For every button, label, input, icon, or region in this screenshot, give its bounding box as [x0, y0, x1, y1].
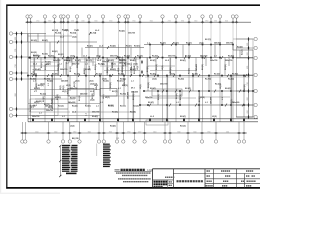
svg-text:KL7(3): KL7(3): [42, 54, 48, 56]
wall step vertical x233: [232, 45, 234, 51]
svg-text:KL2(2): KL2(2): [202, 64, 204, 70]
title block divider x213.5: [213, 169, 215, 188]
svg-text:300x700: 300x700: [160, 83, 167, 85]
svg-text:KL2(2): KL2(2): [178, 79, 184, 81]
svg-text:KL3(1): KL3(1): [117, 81, 123, 83]
svg-text:3600: 3600: [88, 131, 91, 133]
svg-text:3300: 3300: [226, 131, 229, 133]
inter-stack stub: [96, 144, 98, 157]
svg-text:3600: 3600: [194, 21, 197, 23]
svg-text:L5(1): L5(1): [89, 81, 94, 83]
svg-text:KL4(2): KL4(2): [110, 45, 116, 48]
bottom dimension arrows: [20, 132, 246, 134]
svg-text:LL-2: LL-2: [83, 56, 87, 58]
title block row y173.5: [173, 173, 260, 175]
wing roof line y39: [233, 38, 253, 40]
title block row y178.8: [205, 178, 260, 180]
top dimension arrows: [25, 21, 238, 23]
beam segment top-left y36: [28, 35, 72, 37]
svg-text:L-1: L-1: [48, 83, 50, 86]
svg-text:L-1: L-1: [33, 81, 36, 83]
svg-text:KL9(1): KL9(1): [134, 46, 140, 48]
svg-text:AL1(1): AL1(1): [241, 49, 244, 55]
svg-text:KL9(1): KL9(1): [84, 68, 86, 74]
svg-text:KL1(2): KL1(2): [95, 64, 97, 70]
right grid bubbles column: [254, 37, 257, 118]
svg-text:L5(1): L5(1): [140, 84, 142, 89]
svg-text:DT-1: DT-1: [131, 88, 135, 90]
top grid bubble stems: [28, 18, 237, 23]
svg-text:KL9(1): KL9(1): [112, 112, 118, 114]
wall double lines: [35, 58, 232, 122]
svg-text:KL7(3): KL7(3): [90, 33, 97, 35]
svg-text:TL-1 240: TL-1 240: [29, 105, 32, 112]
svg-text:L5(1): L5(1): [103, 94, 105, 99]
left vertical dimension line: [16, 34, 18, 116]
svg-text:3600: 3600: [153, 131, 156, 133]
column grid vertical lines: [28, 22, 237, 122]
svg-text:KL4(2): KL4(2): [110, 124, 116, 127]
svg-text:KL2(2): KL2(2): [148, 82, 150, 88]
svg-text:L-1: L-1: [147, 42, 150, 44]
svg-text:KL2(2): KL2(2): [118, 74, 124, 76]
svg-text:240x600: 240x600: [61, 80, 68, 83]
notes line 3: [118, 178, 120, 179]
svg-text:300x700: 300x700: [210, 60, 217, 62]
svg-text:KL2(2)240: KL2(2)240: [133, 65, 136, 74]
svg-text:240x600: 240x600: [200, 55, 207, 58]
svg-text:KL3(1): KL3(1): [108, 105, 114, 107]
svg-text:2700: 2700: [168, 21, 171, 23]
svg-text:KL2(2): KL2(2): [72, 106, 78, 108]
beam line mid-top y47.5: [85, 47, 144, 49]
svg-text:L3(2): L3(2): [60, 85, 62, 90]
drawing frame left border: [6, 5, 8, 189]
svg-text:240x600: 240x600: [195, 64, 198, 71]
title block row y183.7: [205, 183, 260, 185]
svg-text:KL4(2): KL4(2): [232, 73, 238, 76]
svg-text:LL-2: LL-2: [72, 112, 76, 114]
svg-text:KL2(2): KL2(2): [31, 52, 37, 54]
svg-text:300x700: 300x700: [96, 83, 98, 90]
svg-text:KL7(3): KL7(3): [96, 74, 102, 76]
svg-text:KL7(3): KL7(3): [44, 104, 50, 106]
svg-text:240x600: 240x600: [214, 41, 221, 44]
svg-text:3300: 3300: [247, 43, 249, 46]
title block outline top: [153, 168, 261, 170]
svg-text:KL9(1): KL9(1): [85, 106, 91, 108]
svg-text:KL9(1): KL9(1): [186, 42, 192, 44]
svg-text:3600: 3600: [94, 21, 97, 23]
svg-text:300x700: 300x700: [92, 112, 99, 114]
bottom exterior beam line 1: [28, 118, 258, 120]
svg-text:LL-2: LL-2: [45, 64, 49, 66]
svg-text:KL7(3): KL7(3): [74, 81, 76, 87]
svg-text:KL7(3): KL7(3): [205, 79, 211, 81]
interior beam horizontals: [30, 66, 230, 112]
title block divider x244.4: [243, 174, 245, 188]
svg-text:240x600: 240x600: [68, 101, 75, 104]
svg-text:2700: 2700: [36, 21, 39, 23]
title block row left y183: [168, 182, 174, 184]
svg-text:300x700: 300x700: [145, 97, 152, 99]
bottom dimension line: [22, 132, 247, 134]
svg-text:KL3(1): KL3(1): [41, 62, 43, 68]
svg-text:KL2(2): KL2(2): [124, 56, 130, 58]
svg-text:L-1: L-1: [100, 102, 103, 104]
svg-text:LL-2: LL-2: [33, 105, 37, 107]
main beam line y57.5: [28, 57, 253, 59]
svg-text:3300: 3300: [54, 131, 57, 133]
beam line left y79: [28, 78, 62, 80]
svg-text:LL-2: LL-2: [122, 65, 126, 67]
svg-text:L3(2): L3(2): [152, 79, 157, 81]
svg-text:KL2(2): KL2(2): [48, 56, 54, 58]
svg-text:KL2(2): KL2(2): [152, 56, 158, 58]
beam labels: [30, 30, 239, 128]
svg-text:KL4(2): KL4(2): [237, 46, 243, 49]
svg-text:KL2(2): KL2(2): [103, 81, 109, 83]
notes line 4: [123, 181, 125, 182]
svg-text:KL3(1): KL3(1): [107, 67, 109, 73]
svg-text:L5(1): L5(1): [66, 85, 71, 87]
bottom exterior beam line 2: [28, 121, 258, 123]
svg-text:300x700: 300x700: [60, 69, 67, 71]
top grid bubbles row: [26, 15, 238, 18]
svg-text:3900: 3900: [181, 21, 184, 23]
bottom grid stubs: [22, 122, 244, 140]
svg-text:L-1: L-1: [214, 56, 217, 58]
svg-text:KL1(2): KL1(2): [62, 30, 68, 32]
svg-text:3600: 3600: [109, 21, 112, 23]
svg-text:KL3(1): KL3(1): [70, 66, 72, 72]
corner column: [29, 57, 31, 59]
drawing frame top border: [6, 4, 260, 6]
building left edge x28: [27, 34, 29, 122]
svg-text:KL4(2): KL4(2): [36, 100, 42, 103]
right dimension text: [247, 43, 249, 114]
svg-text:KL2(2): KL2(2): [38, 85, 44, 87]
beam segment y62 c: [102, 61, 128, 63]
page left edge shade: [0, 0, 1, 194]
svg-text:2700: 2700: [15, 64, 17, 67]
svg-text:KL9(1): KL9(1): [130, 112, 136, 114]
svg-text:KL3(1): KL3(1): [148, 102, 154, 104]
svg-text:L-1: L-1: [222, 97, 224, 100]
svg-text:KL4(2): KL4(2): [47, 80, 53, 83]
svg-text:LL-2: LL-2: [165, 60, 169, 62]
title block divider x205: [204, 169, 206, 188]
svg-text:3300: 3300: [247, 97, 249, 100]
svg-text:3600: 3600: [193, 131, 196, 133]
svg-text:3300: 3300: [214, 21, 217, 23]
svg-text:KL7(3): KL7(3): [180, 94, 182, 100]
svg-text:300x700: 300x700: [225, 60, 232, 62]
page bottom edge shade: [0, 193, 60, 194]
svg-text:L3(2): L3(2): [220, 84, 222, 89]
schedule stack A: [62, 145, 78, 172]
svg-text:300x700: 300x700: [128, 33, 135, 35]
svg-text:KL4(2): KL4(2): [228, 78, 234, 81]
svg-text:KL9(1): KL9(1): [180, 60, 186, 62]
svg-text:L5(1): L5(1): [118, 67, 120, 72]
svg-text:KL4(2): KL4(2): [228, 55, 234, 58]
title block cell texts: [206, 170, 256, 186]
right grid bubble leaders: [236, 39, 254, 117]
svg-text:L3(2): L3(2): [90, 99, 95, 101]
svg-text:KL7(3): KL7(3): [120, 94, 126, 96]
svg-text:KL3(1): KL3(1): [52, 74, 58, 76]
svg-text:KL9(1): KL9(1): [42, 40, 48, 42]
bottom dimension text: [35, 131, 229, 133]
stair room box: [30, 99, 58, 116]
design institute name block: [154, 181, 156, 183]
svg-text:LL-2: LL-2: [89, 66, 91, 70]
svg-text:2700: 2700: [247, 82, 249, 85]
top dimension text: [36, 21, 228, 23]
svg-text:LL-2: LL-2: [60, 37, 64, 39]
svg-text:KL4(2): KL4(2): [66, 59, 72, 62]
beam segment left y103.5: [28, 103, 100, 105]
svg-text:3300: 3300: [15, 93, 17, 96]
svg-text:LL-2: LL-2: [97, 60, 101, 62]
plan title text: [121, 169, 123, 171]
beam line right y105: [140, 104, 253, 106]
wall echo line y59: [30, 58, 140, 60]
svg-text:300x700: 300x700: [32, 116, 39, 118]
svg-text:KL3(1): KL3(1): [185, 88, 191, 90]
svg-text:L-1: L-1: [205, 102, 208, 104]
svg-text:KL1(2): KL1(2): [214, 74, 220, 76]
svg-text:240x600: 240x600: [53, 59, 60, 62]
beam segment y115.5: [28, 115, 100, 117]
svg-text:3900: 3900: [205, 21, 208, 23]
notes line 2: [122, 175, 124, 176]
room box 2: [100, 89, 117, 97]
title block divider x236.7: [236, 169, 238, 188]
svg-text:L-1: L-1: [102, 64, 105, 66]
svg-text:3300: 3300: [247, 52, 249, 55]
svg-text:LL-2: LL-2: [99, 46, 103, 48]
svg-text:KL7(3)300x700: KL7(3)300x700: [131, 63, 133, 76]
svg-text:L3(2): L3(2): [63, 85, 65, 90]
left grid bubble leaders: [13, 34, 28, 116]
concrete columns: [27, 44, 254, 121]
plan title leader dash: [115, 169, 120, 171]
drawing frame bottom border: [6, 187, 260, 189]
svg-text:KL9(1): KL9(1): [52, 51, 58, 53]
svg-text:KL1(2): KL1(2): [58, 106, 64, 108]
svg-text:LL-2: LL-2: [33, 69, 35, 73]
svg-text:KL9(1): KL9(1): [180, 116, 186, 118]
svg-text:240x600: 240x600: [127, 92, 130, 99]
interior beam verticals lower: [36, 76, 244, 122]
left vertical dimension line 2: [21, 34, 23, 80]
svg-text:KL1(2): KL1(2): [119, 60, 125, 62]
beam line left y109: [28, 108, 68, 110]
svg-text:L-1: L-1: [39, 113, 42, 115]
svg-text:3300: 3300: [48, 21, 51, 23]
unit boundary dim arrows: [141, 60, 143, 64]
schedule stack A caption: [66, 173, 77, 175]
svg-text:3900: 3900: [109, 131, 112, 133]
svg-text:L5(1): L5(1): [105, 97, 110, 99]
svg-text:3600: 3600: [225, 21, 228, 23]
right dimension arrows: [248, 37, 250, 119]
svg-text:240x600: 240x600: [80, 93, 87, 96]
beam line right step y50: [233, 49, 253, 51]
svg-text:300x700: 300x700: [124, 79, 126, 86]
svg-text:KL9(1): KL9(1): [225, 64, 227, 70]
svg-text:KL3(1): KL3(1): [150, 60, 156, 62]
svg-text:KL9(1): KL9(1): [70, 33, 77, 35]
svg-text:KL9(1): KL9(1): [110, 82, 112, 88]
svg-text:KL3(1): KL3(1): [188, 68, 190, 74]
svg-text:L3(2): L3(2): [212, 116, 217, 118]
wall echo line y77: [145, 76, 250, 78]
svg-text:3600: 3600: [35, 131, 38, 133]
svg-text:L5(1): L5(1): [62, 91, 67, 93]
main beam line y75.5: [28, 75, 253, 77]
svg-text:KL4(2): KL4(2): [150, 73, 156, 76]
svg-text:KL2(2): KL2(2): [158, 94, 160, 100]
room box mid: [152, 89, 182, 96]
building right edge x253: [252, 50, 254, 117]
svg-text:KL2(2): KL2(2): [110, 69, 116, 71]
left grid bubbles column: [9, 32, 12, 117]
svg-text:4200: 4200: [247, 110, 249, 113]
svg-text:KL3(1): KL3(1): [58, 54, 64, 56]
svg-text:KL9(1): KL9(1): [137, 56, 143, 58]
right wing bottom y117: [236, 116, 253, 118]
svg-text:3900: 3900: [73, 131, 76, 133]
svg-text:KL3(1): KL3(1): [55, 33, 62, 35]
svg-text:KL7(3): KL7(3): [70, 98, 76, 100]
svg-text:L-1: L-1: [62, 116, 65, 118]
svg-text:LL-2: LL-2: [74, 30, 78, 32]
svg-text:4200: 4200: [71, 21, 74, 23]
institute sub cell text: [169, 181, 170, 182]
svg-text:L-1: L-1: [131, 81, 134, 83]
beam segment top-left y33.5: [28, 33, 46, 35]
svg-text:3600: 3600: [150, 21, 153, 23]
svg-text:B8@150: B8@150: [72, 138, 79, 140]
title block divider x167.5: [167, 180, 169, 188]
svg-text:L5(1): L5(1): [96, 56, 101, 58]
svg-text:L5(1): L5(1): [162, 65, 164, 70]
svg-text:L-1: L-1: [118, 88, 121, 90]
right vertical dimension line: [248, 39, 250, 117]
svg-text:4200: 4200: [247, 66, 249, 69]
room box 1: [68, 89, 94, 97]
title block row left y179.9: [153, 179, 174, 181]
svg-text:2400: 2400: [81, 21, 84, 23]
svg-text:KL2(2): KL2(2): [225, 88, 231, 90]
svg-text:KL3(1): KL3(1): [160, 42, 166, 44]
svg-text:3900: 3900: [127, 131, 130, 133]
svg-text:KL7(3): KL7(3): [185, 56, 191, 58]
wing edge upper x253: [252, 39, 254, 50]
svg-text:1:25: 1:25: [116, 138, 119, 140]
svg-text:KL1(2): KL1(2): [112, 62, 114, 68]
svg-text:KL3(1): KL3(1): [33, 55, 39, 57]
svg-text:KL7(3): KL7(3): [52, 30, 59, 32]
svg-text:KL4(2): KL4(2): [92, 115, 98, 118]
svg-text:KL7(3): KL7(3): [120, 106, 126, 108]
bottom grid bubbles row: [21, 140, 246, 143]
vertical beam labels: [33, 61, 246, 116]
top dimension line: [26, 21, 252, 23]
room box 3: [146, 120, 168, 125]
svg-text:KL1(2): KL1(2): [40, 94, 46, 96]
svg-text:3300: 3300: [177, 131, 180, 133]
svg-text:2700: 2700: [15, 49, 17, 52]
beam segment y62 a: [30, 61, 60, 63]
svg-text:3900: 3900: [207, 131, 210, 133]
schedule stack A dimension: [59, 146, 61, 176]
svg-text:L-1: L-1: [96, 106, 99, 108]
svg-text:LL-2: LL-2: [90, 91, 94, 93]
schedule stack B: [103, 144, 111, 168]
beam segment y62 b: [68, 61, 95, 63]
notes line 1: [116, 172, 118, 173]
svg-text:KL4(2): KL4(2): [119, 30, 125, 33]
svg-text:240x600: 240x600: [232, 101, 239, 104]
svg-text:LL-2: LL-2: [119, 57, 123, 59]
svg-text:3300: 3300: [15, 37, 17, 40]
svg-text:KL3(1): KL3(1): [74, 74, 80, 76]
svg-text:4200: 4200: [138, 131, 141, 133]
svg-text:L5(1): L5(1): [137, 65, 139, 70]
beam break slash marks: [32, 32, 247, 106]
left dimension arrows: [16, 31, 23, 117]
svg-text:240x600: 240x600: [209, 97, 212, 104]
svg-text:300x600: 300x600: [131, 92, 138, 94]
svg-text:300x700: 300x700: [70, 88, 77, 90]
interior beam verticals upper: [34, 34, 240, 76]
beam line right y91: [144, 90, 253, 92]
svg-text:KL1(2): KL1(2): [31, 40, 37, 42]
svg-text:300x700: 300x700: [46, 110, 53, 112]
beam segment left y89.5: [30, 89, 100, 91]
svg-text:L3(2): L3(2): [72, 37, 77, 39]
svg-text:L3(2): L3(2): [70, 125, 75, 127]
svg-text:LL-2: LL-2: [150, 116, 154, 118]
plan title underline: [115, 171, 152, 173]
svg-text:KL3(1): KL3(1): [192, 74, 198, 76]
svg-text:KL4(2): KL4(2): [130, 59, 136, 62]
svg-text:L-1: L-1: [66, 63, 69, 65]
svg-text:KL7(3): KL7(3): [205, 39, 211, 41]
svg-text:L-1: L-1: [34, 91, 37, 93]
svg-text:L3(2): L3(2): [133, 63, 138, 65]
svg-text:L5(1): L5(1): [36, 83, 38, 88]
svg-text:KL1(2): KL1(2): [156, 64, 158, 70]
svg-text:L-1: L-1: [176, 102, 179, 104]
svg-text:300x700: 300x700: [110, 56, 117, 58]
title block divider x173.4: [172, 169, 174, 188]
beam line left y42: [28, 41, 97, 43]
svg-text:L-1: L-1: [86, 113, 88, 116]
svg-text:KL3(1): KL3(1): [126, 46, 132, 48]
beam line right-top y44.5: [144, 44, 233, 46]
svg-text:300x700: 300x700: [226, 42, 233, 44]
left dimension text: [15, 37, 17, 97]
svg-text:KL1(2): KL1(2): [180, 125, 186, 127]
svg-text:KL3(1): KL3(1): [244, 84, 246, 90]
project name text: [177, 180, 179, 182]
svg-text:300x700: 300x700: [168, 56, 175, 58]
